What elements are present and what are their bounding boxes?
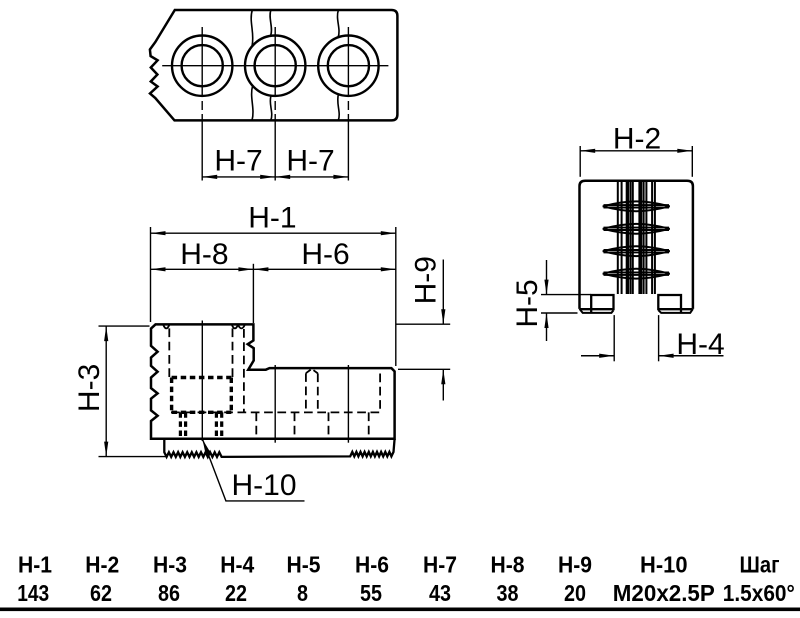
hole 2 outer circle xyxy=(245,35,305,95)
dimension H-5 line lower xyxy=(546,313,548,341)
svg-text:H-7: H-7 xyxy=(214,144,262,177)
dimension H-2 line xyxy=(580,150,692,152)
hole 1 inner circle xyxy=(182,45,223,86)
svg-text:H-2: H-2 xyxy=(613,123,661,156)
svg-text:M20x2.5P: M20x2.5P xyxy=(613,580,715,606)
dimension H-9 line upper xyxy=(442,260,444,325)
arrow H-9 up xyxy=(441,369,445,384)
serrated band vertical lines xyxy=(618,181,655,294)
dimension H-1 extension right xyxy=(395,227,397,366)
arrow H-5 down xyxy=(544,280,548,295)
wire break line through hole 3 xyxy=(337,10,339,120)
serration tooth row 3 xyxy=(603,246,670,256)
svg-text:H-7: H-7 xyxy=(423,552,457,578)
side view right notch xyxy=(658,295,681,313)
dimension H-1 line xyxy=(151,232,396,234)
svg-text:143: 143 xyxy=(17,580,49,606)
svg-text:H-3: H-3 xyxy=(153,552,187,578)
svg-text:38: 38 xyxy=(497,580,519,606)
arrow left H-7 b xyxy=(275,175,290,179)
arrow H-1 left xyxy=(151,231,166,235)
dimension H-4 line right segment xyxy=(659,355,724,357)
svg-text:H-9: H-9 xyxy=(558,552,592,578)
dimension H-4 extension right xyxy=(658,315,660,361)
svg-text:H-1: H-1 xyxy=(18,552,52,578)
thick hidden screw channel right xyxy=(216,412,221,439)
arrow right H-7 a xyxy=(260,175,275,179)
dimension H-5 line upper xyxy=(546,260,548,295)
thick hidden screw channel left xyxy=(180,412,185,439)
front view body outline with serrated left edge and stepped top xyxy=(151,324,395,438)
serration tooth row 2 xyxy=(603,224,670,234)
front view bottom serrated strip xyxy=(164,439,394,457)
hole 1 outer circle xyxy=(172,35,232,95)
svg-text:H-4: H-4 xyxy=(220,552,254,578)
arrow H-8 left xyxy=(151,267,166,271)
svg-text:43: 43 xyxy=(429,580,451,606)
arrow H-5 up xyxy=(544,313,548,328)
hole 2 horizontal centerline xyxy=(235,65,315,67)
svg-text:8: 8 xyxy=(297,580,308,606)
arrow H-3 up xyxy=(104,326,108,341)
svg-text:H-3: H-3 xyxy=(73,364,106,412)
arrow H-8 right xyxy=(238,267,253,271)
dimension H-2 extension left xyxy=(579,146,581,177)
hidden slot wall 1 xyxy=(255,412,257,438)
serration tooth row 4 xyxy=(603,269,670,279)
dimension H-9 extension bottom xyxy=(398,368,450,370)
hole 2 inner circle xyxy=(255,45,296,86)
dimension H-7 first span line xyxy=(202,176,275,178)
arrow H-1 right xyxy=(381,231,396,235)
arrow H-4 pointing left xyxy=(659,354,674,358)
dimension H-8/H-6 divider extension xyxy=(252,264,254,323)
table header row xyxy=(18,552,780,578)
top view body outline xyxy=(150,10,398,120)
dimension H-5 extension bottom xyxy=(541,312,578,314)
hidden slot wall 2 xyxy=(294,412,296,438)
hidden line countersink left wall xyxy=(305,373,307,412)
hole 1 right top chamfer arcs on top face xyxy=(232,325,245,329)
arrow left H-7 a xyxy=(202,175,217,179)
svg-text:H-10: H-10 xyxy=(640,552,688,578)
hole 1 horizontal centerline xyxy=(162,65,242,67)
arrow H-3 down xyxy=(104,442,108,457)
arrow H-2 right xyxy=(677,149,692,153)
svg-text:Шаг: Шаг xyxy=(740,552,780,578)
arrow right H-7 b xyxy=(333,175,348,179)
dimension H-3 extension bottom xyxy=(99,456,168,458)
svg-text:H-6: H-6 xyxy=(301,238,349,271)
dimension H-1 extension left xyxy=(150,227,152,322)
dimension H-5 extension top xyxy=(541,294,591,296)
svg-text:62: 62 xyxy=(90,580,112,606)
svg-text:H-10: H-10 xyxy=(231,469,296,502)
svg-text:H-1: H-1 xyxy=(248,202,296,235)
arrow H-9 down xyxy=(441,309,445,324)
leader H-10 arrowhead xyxy=(203,439,211,454)
side view bottom right foot chamfer xyxy=(658,309,693,313)
dimension H-3 line xyxy=(105,326,107,457)
hole 3 inner circle xyxy=(328,45,369,86)
svg-text:H-6: H-6 xyxy=(355,552,389,578)
dimension H-4 line left segment xyxy=(581,355,614,357)
svg-text:H-2: H-2 xyxy=(85,552,119,578)
side view body outline xyxy=(580,181,693,309)
side view left notch xyxy=(591,295,613,313)
svg-text:H-8: H-8 xyxy=(491,552,525,578)
wire break line left of hole 2 xyxy=(251,10,253,120)
hole 1 vertical centerline / extension xyxy=(201,27,203,181)
hidden line: hole1 right wall b xyxy=(243,329,245,412)
hole 1 top chamfer arc on top face xyxy=(163,325,169,329)
dimension H-3 extension top xyxy=(99,325,150,327)
serration tooth row 1 xyxy=(603,201,670,211)
side view right foot sole line xyxy=(658,308,692,310)
hidden countersink tent on step face xyxy=(306,369,318,374)
hidden slot wall 4 xyxy=(368,412,370,438)
svg-text:H-5: H-5 xyxy=(287,552,321,578)
svg-text:H-8: H-8 xyxy=(180,238,228,271)
svg-text:H-7: H-7 xyxy=(286,144,334,177)
hole 2 vertical centerline / extension xyxy=(274,27,276,181)
svg-text:86: 86 xyxy=(158,580,180,606)
hole 3 outer circle xyxy=(318,35,378,95)
hidden line countersink right wall xyxy=(317,373,319,412)
arrow H-2 left xyxy=(580,149,595,153)
svg-text:H-5: H-5 xyxy=(511,279,544,327)
hole 3 front centerline xyxy=(347,365,349,443)
hidden long horizontal slot bottom xyxy=(171,411,381,413)
dimension H-9 extension top xyxy=(396,323,450,325)
arrow H-4 pointing right xyxy=(599,354,614,358)
hidden line: hole1 right wall a xyxy=(232,328,234,377)
svg-text:22: 22 xyxy=(225,580,247,606)
svg-text:55: 55 xyxy=(360,580,382,606)
hidden line right hole wall xyxy=(379,374,381,413)
hole 2 front centerline xyxy=(274,365,276,443)
hidden slot wall 3 xyxy=(328,412,330,438)
hidden line: hole1 left wall xyxy=(168,328,170,377)
table value row xyxy=(17,580,795,606)
svg-text:20: 20 xyxy=(564,580,586,606)
dimension H-6 line xyxy=(253,268,395,270)
svg-text:H-9: H-9 xyxy=(409,256,442,304)
hole 3 vertical centerline / extension xyxy=(347,27,349,181)
dimension H-4 extension left xyxy=(613,315,615,361)
svg-text:1.5x60°: 1.5x60° xyxy=(723,580,795,606)
wire break line through hole 2 xyxy=(270,10,272,120)
table bottom rule xyxy=(0,608,800,612)
dimension H-8 line xyxy=(151,268,254,270)
dimension H-7 second span line xyxy=(275,176,348,178)
thick hidden thread pocket rectangle H-10 xyxy=(172,378,232,413)
svg-text:H-4: H-4 xyxy=(676,328,724,361)
hole 3 horizontal centerline xyxy=(308,65,388,67)
dimension H-9 line lower xyxy=(442,369,444,400)
side view bottom left foot chamfer xyxy=(580,309,614,313)
dimension H-2 extension right xyxy=(691,146,693,177)
hole 1 front centerline xyxy=(201,321,203,442)
leader H-10 line xyxy=(203,439,305,501)
side view left foot sole line xyxy=(580,308,614,310)
arrow H-6 left xyxy=(253,267,268,271)
arrow H-6 right xyxy=(381,267,396,271)
